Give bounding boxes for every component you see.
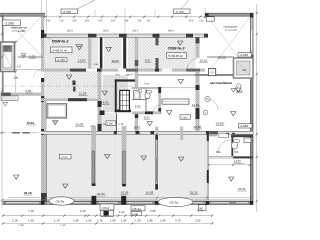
svg-text:1.20: 1.20 — [135, 218, 141, 222]
svg-text:1.35: 1.35 — [97, 218, 103, 222]
svg-text:5.25: 5.25 — [30, 55, 36, 59]
svg-text:Р'≈1.5·10: Р'≈1.5·10 — [226, 29, 238, 32]
svg-text:15.08: 15.08 — [76, 122, 84, 126]
WC fixtures — [134, 91, 141, 100]
svg-text:2.10: 2.10 — [80, 209, 86, 213]
WC entry door posts — [226, 133, 229, 138]
floor mark triangle near counter — [167, 111, 172, 115]
ОК-3а small box bottom — [131, 206, 145, 211]
svg-text:ОК-2: ОК-2 — [133, 30, 139, 33]
svg-text:11.29: 11.29 — [79, 92, 87, 96]
floor mark triangle corridor — [147, 122, 152, 126]
svg-text:1.80: 1.80 — [147, 218, 153, 222]
svg-text:-2.760: -2.760 — [62, 10, 71, 14]
svg-text:6.92: 6.92 — [145, 83, 150, 86]
svg-text:12.84: 12.84 — [78, 58, 86, 62]
door arcs corridor — [209, 100, 218, 110]
left wing outer west wall — [2, 16, 4, 93]
svg-text:ОК-3а: ОК-3а — [56, 199, 65, 203]
svg-text:-.830: -.830 — [125, 73, 131, 76]
svg-text:19.86: 19.86 — [216, 121, 224, 125]
wall crossing x156 at middle wall — [155, 127, 158, 135]
main top wall — [43, 34, 208, 37]
bottom dimension rows — [2, 215, 213, 217]
floor mark triangle ПОМ2 mid — [67, 75, 72, 79]
svg-text:.750: .750 — [115, 73, 120, 76]
centerline dash horizontal y86 — [2, 85, 135, 87]
svg-text:760: 760 — [98, 20, 103, 23]
svg-text:2.09: 2.09 — [195, 218, 201, 222]
wall column x88 — [88, 37, 91, 68]
hall bottom dimension line — [8, 196, 40, 198]
svg-text:9.16: 9.16 — [237, 89, 243, 93]
corridor partition line x116.5 — [116, 114, 118, 132]
equipment box right corridor — [209, 69, 216, 76]
corridor top thin wall y74.5 right part — [138, 74, 253, 75]
svg-text:795: 795 — [46, 20, 51, 23]
triangles markers upper rooms — [106, 47, 111, 51]
door arc left wing top — [46, 38, 54, 45]
svg-text:2.78: 2.78 — [119, 123, 124, 126]
svg-text:ОК-2: ОК-2 — [102, 206, 109, 210]
svg-text:1.78: 1.78 — [101, 123, 106, 126]
svg-text:S=66.51 м²: S=66.51 м² — [52, 49, 67, 53]
svg-text:1920: 1920 — [234, 160, 241, 164]
svg-text:ОК-3: ОК-3 — [103, 30, 109, 33]
svg-text:870: 870 — [111, 20, 116, 23]
svg-text:ОК-3а: ОК-3а — [132, 207, 141, 211]
svg-text:25.35: 25.35 — [190, 190, 198, 194]
svg-text:25.18: 25.18 — [24, 191, 32, 195]
svg-text:1.90: 1.90 — [73, 218, 79, 222]
svg-text:-2.140: -2.140 — [60, 156, 68, 159]
svg-text:710: 710 — [199, 20, 204, 23]
dark core column A — [100, 38, 103, 69]
left vertical dimension line — [1, 16, 3, 208]
svg-text:10.95: 10.95 — [112, 59, 120, 63]
door label box ДК3 — [199, 205, 207, 211]
svg-text:-2.280: -2.280 — [240, 53, 249, 57]
wall column x135 — [135, 37, 138, 133]
left wing partition line y69.5 — [3, 69, 41, 71]
svg-text:2.18: 2.18 — [12, 218, 18, 222]
svg-text:ПОМ № 3: ПОМ № 3 — [168, 47, 185, 51]
triangles hall — [63, 184, 68, 188]
room hatch ПОМ2 east strip — [101, 113, 117, 132]
small column marks in ПОМ2 — [73, 81, 76, 86]
bottom outer wall band — [3, 201, 254, 205]
hall east wall x207 — [207, 134, 208, 200]
oval window label ОК-3а left — [49, 197, 74, 205]
svg-text:3.70: 3.70 — [197, 208, 203, 212]
svg-text:12.16: 12.16 — [200, 58, 208, 62]
white room platform lower-left — [47, 104, 67, 118]
white column strip A — [98, 38, 104, 69]
left wing window bay — [1, 42, 15, 72]
right wing X-cross room — [208, 17, 250, 73]
wall seg below right — [231, 134, 253, 137]
wall column x196 (ПОМ3 east wall) — [196, 37, 200, 133]
dark core column B — [123, 38, 126, 69]
svg-text:4.080: 4.080 — [107, 123, 114, 126]
svg-text:-2.080: -2.080 — [240, 124, 249, 128]
top-left wing wall — [0, 13, 45, 16]
svg-text:ПОМ № 2: ПОМ № 2 — [52, 39, 69, 43]
wall under right wing room y57 — [207, 56, 234, 57]
triangle mark room2 — [21, 54, 26, 58]
interior wall y69 across — [41, 69, 205, 72]
WC cluster center — [132, 87, 161, 114]
svg-text:1.52: 1.52 — [119, 210, 125, 214]
svg-text:3.70: 3.70 — [175, 218, 181, 222]
elevator car — [120, 90, 130, 110]
white column strip B — [122, 38, 129, 69]
svg-text:2.080: 2.080 — [181, 116, 188, 119]
svg-text:1.90: 1.90 — [60, 224, 66, 226]
svg-text:7.10: 7.10 — [28, 209, 34, 213]
svg-text:14.58: 14.58 — [146, 190, 154, 194]
wall column x156 upper posts — [156, 37, 159, 45]
svg-text:1.70: 1.70 — [54, 218, 60, 222]
svg-text:1.90: 1.90 — [110, 218, 116, 222]
svg-text:13.91: 13.91 — [192, 103, 200, 107]
bottom inner line — [3, 199, 253, 201]
svg-text:4.2: 4.2 — [17, 65, 22, 69]
elevator shaft walls — [103, 75, 128, 112]
wall y157 right — [209, 157, 253, 158]
middle main wall y131.5 — [41, 131, 253, 134]
svg-text:4.2: 4.2 — [242, 68, 247, 72]
centerline dash left — [0, 132, 41, 134]
right outer east wall — [250, 13, 253, 203]
svg-text:14.95: 14.95 — [101, 101, 109, 105]
left edge stair steps — [1, 96, 18, 101]
svg-text:21.95: 21.95 — [97, 192, 105, 196]
svg-text:Р'≈-2.280: Р'≈-2.280 — [13, 29, 26, 33]
room hatch ПОМ2 floor — [44, 37, 100, 99]
WC top wall thin line right — [161, 87, 199, 89]
room hatch ПОМ3 floor — [134, 37, 197, 69]
left wing interior: window sill wall y56 — [18, 56, 43, 57]
svg-text:-2.760: -2.760 — [56, 58, 65, 62]
svg-text:2.84: 2.84 — [94, 63, 99, 66]
svg-text:7.38: 7.38 — [18, 224, 24, 226]
ПОМ2 triangle — [76, 45, 83, 50]
wall x156 lower — [156, 135, 158, 190]
hall pilaster columns — [91, 126, 96, 186]
right wing bottom wall y74 handled above; window box corner — [234, 58, 254, 78]
grid leader lines top — [42, 0, 206, 34]
left wing X-cross room1 — [4, 17, 42, 56]
svg-text:1.10: 1.10 — [90, 124, 95, 127]
door post x196 y85 — [196, 85, 200, 90]
floor mark triangle white room — [53, 121, 58, 125]
svg-text:3.6: 3.6 — [234, 150, 239, 154]
svg-text:1.90: 1.90 — [28, 218, 34, 222]
svg-text:ОК-3: ОК-3 — [168, 30, 174, 33]
wall crossing x180 at middle wall — [180, 127, 183, 141]
top boxed labels — [61, 9, 78, 14]
left wing wall band y90 — [1, 93, 45, 96]
top dimension line — [45, 16, 205, 18]
room hatch band center top — [101, 37, 138, 68]
svg-text:795: 795 — [124, 20, 129, 23]
svg-text:ОК-3: ОК-3 — [67, 30, 73, 33]
svg-text:Ом: Ом — [216, 150, 220, 154]
middle wall dark seg right — [210, 131, 218, 134]
floor mark triangle waiting hall — [236, 88, 241, 92]
ОК-2 label box bottom — [100, 204, 114, 210]
svg-text:21.05: 21.05 — [238, 187, 246, 191]
svg-text:8.54: 8.54 — [134, 125, 140, 129]
svg-text:9.05: 9.05 — [26, 89, 32, 93]
svg-text:1.35: 1.35 — [121, 218, 127, 222]
svg-text:1.95: 1.95 — [86, 218, 92, 222]
wall column x97 — [98, 68, 102, 133]
svg-text:зал ожидания: зал ожидания — [210, 81, 232, 85]
top-right wing wall — [205, 13, 253, 16]
floor mark triangle near shaft — [102, 91, 107, 95]
svg-text:1.90: 1.90 — [160, 218, 166, 222]
svg-text:870: 870 — [85, 20, 90, 23]
svg-text:19.04: 19.04 — [27, 121, 35, 125]
WC right — [231, 137, 233, 156]
svg-text:8.37: 8.37 — [145, 58, 151, 62]
right vertical dimension line — [256, 4, 258, 212]
right rooms: wall y136 — [209, 135, 217, 137]
circled numbers — [205, 96, 210, 101]
circled mark 6 in WC — [138, 89, 142, 93]
svg-text:710: 710 — [59, 20, 64, 23]
floor mark triangle ПОМ3 lower — [178, 80, 183, 84]
door arc WC — [153, 105, 160, 113]
svg-text:ОК-3а: ОК-3а — [170, 200, 179, 204]
oval window label ОК-3а right — [158, 197, 193, 206]
svg-text:S=68.85 м²: S=68.85 м² — [168, 54, 183, 58]
svg-text:16.23: 16.23 — [218, 55, 226, 59]
svg-text:8.97: 8.97 — [144, 115, 150, 119]
room1 labels — [3, 20, 21, 25]
circled mark 1 — [237, 84, 241, 88]
svg-text:795: 795 — [72, 20, 77, 23]
counter desk right of WC — [162, 99, 189, 104]
level box -2.080 near WC — [180, 115, 191, 119]
svg-text:16.58: 16.58 — [121, 191, 129, 195]
svg-text:2.05: 2.05 — [135, 104, 141, 108]
svg-text:2.00: 2.00 — [150, 209, 156, 213]
wall y98 across ПОМ2 — [41, 98, 102, 101]
west main wall column x41 — [41, 16, 44, 201]
svg-text:870: 870 — [189, 20, 194, 23]
svg-text:-2.760: -2.760 — [175, 10, 184, 14]
ПОМ3 triangle — [178, 41, 183, 45]
svg-text:12.30: 12.30 — [194, 125, 202, 129]
top wall dark piers — [43, 34, 47, 38]
hall level label — [60, 154, 72, 159]
hall hatch lower — [44, 134, 207, 201]
svg-text:помещение: помещение — [224, 26, 239, 29]
svg-text:710: 710 — [137, 20, 142, 23]
